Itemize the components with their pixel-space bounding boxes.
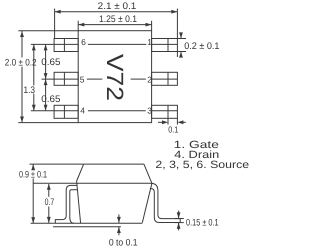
2.1 arrows <box>55 10 61 14</box>
svg-text:1.3: 1.3 <box>24 85 36 96</box>
pin 1 <box>152 39 178 52</box>
2.0 arrows <box>20 31 24 37</box>
body bottom extension to left <box>18 122 78 124</box>
svg-text:1: 1 <box>147 37 152 47</box>
extension line body-right top <box>151 21 153 31</box>
dim 0 to 0.1 shafts <box>118 214 120 223</box>
right lead outline <box>150 183 180 222</box>
extension below pin 1 <box>176 52 178 57</box>
svg-text:0 to 0.1: 0 to 0.1 <box>109 237 138 248</box>
dimension 0.2 ±0.1 ticks <box>177 38 186 40</box>
pin 2 <box>152 72 178 85</box>
svg-text:2.0 ± 0.2: 2.0 ± 0.2 <box>5 58 37 69</box>
0.1 arrows <box>162 120 168 124</box>
dimension 0.1 below pin 3 extensions <box>167 118 169 124</box>
row 1 centre extension left <box>31 43 78 45</box>
body top edge <box>84 163 144 165</box>
row 3 centre line through pin 3 <box>152 110 178 112</box>
extension line right x=177.4 <box>176 9 178 39</box>
0.15 arrows <box>177 212 181 218</box>
seating plane line <box>53 226 121 228</box>
left lead outline inner <box>70 190 78 223</box>
dim 0.15 shafts and ticks <box>178 211 180 219</box>
extension line left x=54.6 <box>54 9 56 39</box>
svg-text:2, 3, 5, 6. Source: 2, 3, 5, 6. Source <box>155 159 249 171</box>
dimension 2.0 ±0.2 dim line <box>21 31 23 58</box>
leader pin6-pin1 <box>88 43 146 45</box>
left lead outline outer <box>55 185 77 223</box>
0.9 arrows <box>31 164 35 170</box>
body right edge <box>142 183 152 223</box>
svg-text:0.2 ± 0.1: 0.2 ± 0.1 <box>184 41 219 52</box>
svg-text:0.7: 0.7 <box>45 197 55 208</box>
svg-text:0.65: 0.65 <box>41 57 60 68</box>
0.7 arrows <box>47 184 51 190</box>
dim 0.7 line <box>48 184 50 197</box>
1.3 arrows <box>32 44 36 50</box>
marking V72 rotated 90 <box>102 54 128 101</box>
svg-text:0.65: 0.65 <box>41 94 60 105</box>
body left edge <box>77 181 81 223</box>
0.65 upper arrows <box>44 44 48 50</box>
svg-text:4: 4 <box>80 105 85 115</box>
0.65 lower arrows <box>44 79 48 85</box>
leader pin4-pin3 <box>88 110 146 112</box>
top extension line <box>30 163 84 165</box>
svg-text:V72: V72 <box>102 54 128 101</box>
left chamfer <box>77 164 84 181</box>
dimension 0.65 lower dim line <box>45 79 47 111</box>
bottom line body + extension <box>31 222 143 224</box>
body top extension to left <box>18 30 78 32</box>
parting line / right lead top <box>33 182 150 184</box>
svg-text:2: 2 <box>147 74 152 84</box>
svg-text:6: 6 <box>81 37 86 47</box>
arrowheads <box>20 10 183 233</box>
svg-text:0.15 ± 0.1: 0.15 ± 0.1 <box>186 218 219 229</box>
pin 3 <box>152 105 178 118</box>
row 3 centre extension left <box>31 110 78 112</box>
svg-text:0.9 ± 0.1: 0.9 ± 0.1 <box>19 170 47 181</box>
svg-text:5: 5 <box>80 74 85 84</box>
row 1 centre line through pin 1 <box>152 43 178 45</box>
right chamfer <box>144 164 152 183</box>
svg-text:0.1: 0.1 <box>168 125 178 135</box>
pin 6 <box>54 39 78 52</box>
svg-text:2.1 ± 0.1: 2.1 ± 0.1 <box>98 1 137 12</box>
dim 0.9 line <box>32 164 34 170</box>
svg-text:1.25 ± 0.1: 1.25 ± 0.1 <box>99 14 137 25</box>
row 2 centre line through pin 2 <box>152 78 178 80</box>
0.2 arrows <box>179 32 183 38</box>
pin 4 <box>54 105 78 118</box>
1.25 arrows <box>78 23 84 27</box>
dimension 0.65 upper dim line <box>45 44 47 79</box>
0 to 0.1 arrows <box>117 217 121 223</box>
svg-text:3: 3 <box>147 105 152 115</box>
dimension 1.25 ±0.1 dim line <box>78 24 151 26</box>
pin 5 <box>54 72 78 85</box>
package body top view <box>78 31 151 123</box>
extension line body-left top <box>77 21 79 31</box>
leader pin5-pin2 broken by V72 <box>87 78 103 80</box>
dimension 1.3 dim line <box>33 44 35 85</box>
dimension 2.1 ±0.1 dim line <box>55 11 177 13</box>
row 2 centre extension left <box>42 78 79 80</box>
